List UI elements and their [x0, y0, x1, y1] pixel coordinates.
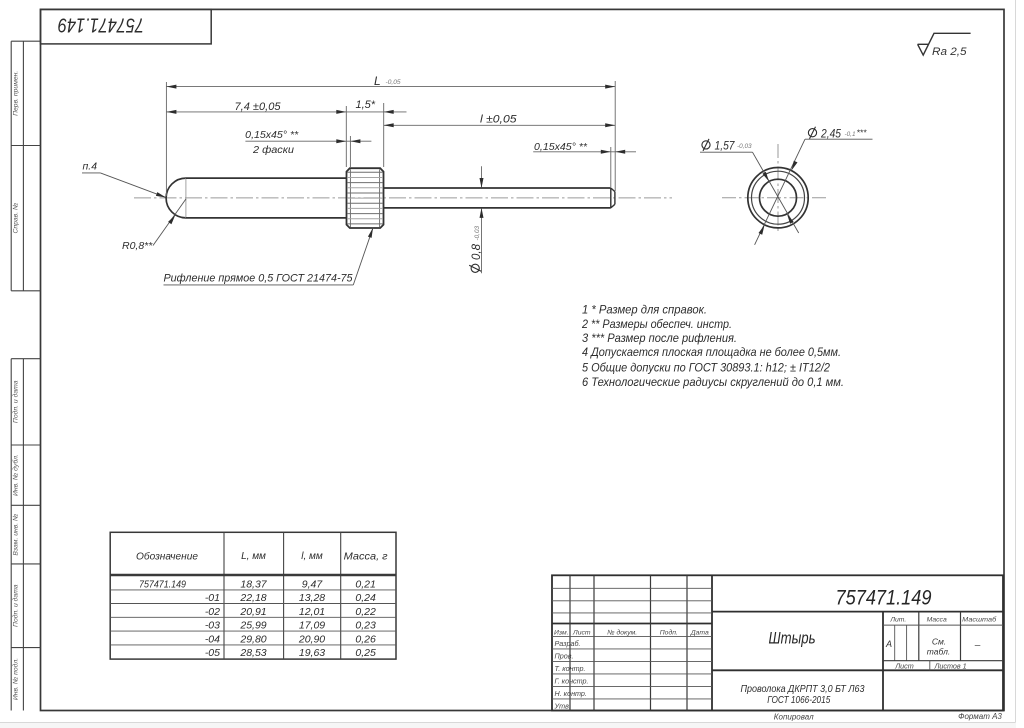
end view inner circle dia 1,57 [760, 179, 797, 216]
title block list row line [883, 660, 1003, 662]
knurl outline [347, 168, 384, 228]
svg-text:29,80: 29,80 [239, 633, 266, 645]
extension line pin right end [614, 81, 616, 191]
svg-text:1 * Размер для справок.: 1 * Размер для справок. [582, 304, 707, 317]
svg-text:-05: -05 [205, 647, 220, 659]
svg-text:Т. контр.: Т. контр. [555, 664, 586, 673]
chamfer dimension line right [533, 151, 636, 153]
svg-text:Справ. №: Справ. № [12, 203, 19, 234]
svg-text:табл.: табл. [927, 647, 950, 657]
svg-text:0,21: 0,21 [355, 579, 375, 591]
knurl chamfer line left [349, 169, 351, 227]
svg-text:18,37: 18,37 [240, 579, 267, 591]
svg-text:1,57: 1,57 [715, 141, 736, 153]
svg-text:А: А [885, 639, 892, 649]
svg-text:п.4: п.4 [83, 160, 98, 172]
pin head tangency line [185, 178, 187, 218]
knurl note underline [164, 284, 354, 286]
pin body bottom edge [186, 217, 347, 219]
dia 1,57 label underline [700, 151, 753, 153]
svg-text:Масса, г: Масса, г [344, 552, 388, 563]
extension line chamfer left offset [349, 136, 351, 167]
parameter table header separator thick [110, 574, 396, 577]
paper bottom shadow strip [0, 723, 1016, 728]
extension line knurl left [345, 106, 347, 167]
shaft bottom edge [384, 207, 611, 209]
svg-text:Масса: Масса [927, 617, 947, 624]
svg-text:№ докум.: № докум. [607, 628, 637, 636]
svg-text:-0,1: -0,1 [845, 131, 856, 138]
svg-text:Пров.: Пров. [555, 652, 574, 661]
svg-text:-03: -03 [205, 620, 220, 632]
svg-text:17,09: 17,09 [299, 620, 325, 632]
title block lit massa masshtab verticals [918, 612, 920, 661]
parameter table row lines [110, 589, 396, 591]
end view middle circle [752, 171, 805, 224]
knurl straight knurling hatch lines [347, 171, 383, 173]
svg-text:Н. контр.: Н. контр. [555, 689, 587, 698]
shaft end face [614, 192, 616, 205]
svg-text:Разраб.: Разраб. [555, 639, 581, 648]
shaft end chamfer top diagonal [611, 188, 615, 192]
svg-text:-0,05: -0,05 [386, 79, 401, 86]
svg-text:Формат А3: Формат А3 [958, 712, 1002, 721]
dia 1,57 leader line [753, 152, 799, 233]
svg-text:1,5*: 1,5* [356, 99, 376, 111]
dia 0,8 dimension line lower [481, 208, 483, 273]
svg-text:***: *** [857, 127, 868, 137]
svg-text:Обозначение: Обозначение [136, 551, 198, 563]
title block vertical main divider [711, 575, 713, 710]
extension line at pin tip [165, 82, 167, 196]
extension line shaft end chamfer [610, 147, 612, 187]
svg-text:R0,8**: R0,8** [122, 240, 153, 252]
svg-text:Лист: Лист [572, 629, 591, 636]
svg-text:0,23: 0,23 [355, 620, 376, 632]
svg-text:2 ** Размеры обеспеч. инстр.: 2 ** Размеры обеспеч. инстр. [581, 318, 732, 331]
knurl chamfer line right [379, 169, 381, 227]
svg-text:Масштаб: Масштаб [962, 616, 997, 624]
svg-text:3 *** Размер после рифления.: 3 *** Размер после рифления. [582, 332, 737, 345]
svg-text:757471.149: 757471.149 [139, 579, 186, 591]
svg-text:–: – [974, 640, 981, 651]
dia 1,57 label text [702, 141, 710, 149]
end view vertical center line [777, 144, 779, 234]
svg-text:ГОСТ 1066-2015: ГОСТ 1066-2015 [767, 694, 830, 706]
pin head rounded tip arc [166, 178, 186, 218]
svg-text:L, мм: L, мм [241, 551, 266, 562]
shaft end chamfer start edge [610, 188, 612, 208]
surface roughness symbol [918, 33, 971, 55]
svg-text:Листов 1: Листов 1 [934, 661, 967, 670]
svg-text:Инв. № дубл.: Инв. № дубл. [11, 454, 19, 496]
dia 0,8 dimension line upper [481, 166, 483, 187]
svg-text:Копировал: Копировал [774, 712, 814, 721]
svg-text:0,15х45° **: 0,15х45° ** [245, 129, 299, 141]
dimension arrow 1,5 right [384, 110, 394, 114]
top-left document number box [41, 9, 212, 44]
dimension line L [166, 86, 615, 88]
svg-text:0,8: 0,8 [471, 243, 483, 260]
svg-text:l ±0,05: l ±0,05 [480, 114, 517, 126]
svg-text:0,24: 0,24 [355, 592, 376, 604]
svg-text:l, мм: l, мм [301, 551, 323, 562]
chamfer dimension line left [245, 140, 371, 142]
pin body top edge [186, 177, 347, 179]
svg-text:Подп. и дата: Подп. и дата [11, 380, 19, 423]
svg-text:L: L [374, 74, 381, 88]
svg-text:Лист: Лист [894, 661, 914, 670]
title block outer box [552, 575, 1003, 710]
parameter table outer box [110, 532, 396, 659]
dia 2,45 leader line [755, 139, 805, 245]
svg-text:Утв.: Утв. [554, 701, 571, 710]
dia 0,8 dimension text rotated [469, 243, 483, 272]
svg-text:Подп. и дата: Подп. и дата [11, 584, 19, 627]
left stamp column group 2 box [10, 359, 12, 711]
parameter table column line 1 [223, 532, 225, 659]
svg-text:0,26: 0,26 [355, 633, 376, 645]
svg-text:Изм.: Изм. [554, 629, 569, 636]
leader R0,8 line [153, 199, 186, 246]
svg-text:19,63: 19,63 [299, 647, 325, 659]
svg-text:Дата: Дата [690, 629, 709, 636]
paper right edge line [1015, 0, 1017, 723]
svg-text:Инв. № подл.: Инв. № подл. [11, 658, 19, 700]
title block list listov divider [929, 661, 931, 671]
title block horizontal above izm row [552, 623, 712, 625]
svg-text:Рифление прямое 0,5 ГОСТ 21474: Рифление прямое 0,5 ГОСТ 21474-75 [164, 272, 354, 284]
svg-text:7,4 ±0,05: 7,4 ±0,05 [235, 101, 282, 113]
svg-text:Лит.: Лит. [889, 617, 906, 624]
title block vertical divider right section [882, 612, 884, 711]
shaft end chamfer bottom diagonal [611, 204, 615, 208]
title block horizontal under name cell [712, 669, 1003, 671]
svg-text:См.: См. [932, 637, 946, 647]
svg-text:4 Допускается плоская площадка: 4 Допускается плоская площадка не более … [582, 346, 841, 359]
end view outer circle dia 2,45 [748, 168, 808, 228]
left stamp column group 1 box [10, 41, 12, 291]
svg-text:12,01: 12,01 [299, 606, 325, 618]
dia 2,45 label underline [805, 138, 873, 140]
parameter table column line 2 [283, 532, 285, 659]
svg-text:Проволока ДКРПТ 3,0 БТ Л63: Проволока ДКРПТ 3,0 БТ Л63 [741, 683, 865, 695]
svg-text:Г. констр.: Г. констр. [555, 677, 589, 686]
svg-text:0,25: 0,25 [355, 647, 376, 659]
parameter table column line 3 [340, 532, 342, 659]
svg-text:-02: -02 [205, 606, 220, 618]
svg-text:25,99: 25,99 [239, 620, 266, 632]
shaft top edge [384, 187, 611, 189]
svg-text:757471.149: 757471.149 [836, 586, 932, 609]
svg-text:Взам. инв. №: Взам. инв. № [12, 514, 19, 556]
title block lit header underline [883, 624, 1003, 626]
svg-text:20,90: 20,90 [298, 633, 325, 645]
svg-text:22,18: 22,18 [239, 592, 266, 604]
svg-text:20,91: 20,91 [239, 606, 266, 618]
title block horizontal under doc number [712, 611, 1003, 613]
title block lit subcolumns [894, 625, 896, 661]
svg-text:5 Общие допуски по ГОСТ 30893.: 5 Общие допуски по ГОСТ 30893.1: h12; ± … [582, 361, 830, 374]
dimension line 7,4 [166, 111, 406, 113]
svg-text:2,45: 2,45 [820, 128, 841, 140]
svg-text:Штырь: Штырь [769, 630, 816, 648]
svg-text:-04: -04 [205, 633, 220, 645]
svg-text:0,15х45° **: 0,15х45° ** [534, 141, 588, 153]
svg-text:0,22: 0,22 [355, 606, 376, 618]
svg-text:757471.149: 757471.149 [58, 13, 144, 36]
svg-text:9,47: 9,47 [302, 579, 324, 591]
knurl note leader line [353, 228, 373, 285]
svg-text:Ra 2,5: Ra 2,5 [932, 46, 967, 58]
svg-text:-0,03: -0,03 [474, 225, 481, 240]
svg-text:28,53: 28,53 [239, 647, 266, 659]
title block left row lines [552, 587, 712, 589]
extension line knurl right [383, 103, 385, 167]
svg-text:13,28: 13,28 [299, 592, 325, 604]
leader note p.4 line [82, 172, 100, 174]
title block left columns verticals [569, 575, 571, 710]
svg-text:6 Технологические радиусы скру: 6 Технологические радиусы скруглений до … [582, 376, 844, 389]
svg-text:2 фаски: 2 фаски [252, 144, 294, 156]
svg-text:Перв. примен.: Перв. примен. [12, 71, 19, 116]
pin center axis line [134, 197, 672, 199]
dimension line l [384, 124, 616, 126]
dia 2,45 label text [808, 129, 816, 137]
end view horizontal center line [722, 197, 828, 199]
svg-text:-0,03: -0,03 [737, 143, 752, 150]
svg-text:Подп.: Подп. [660, 628, 678, 636]
svg-text:-01: -01 [205, 592, 220, 604]
paper bottom edge line [0, 722, 1016, 724]
